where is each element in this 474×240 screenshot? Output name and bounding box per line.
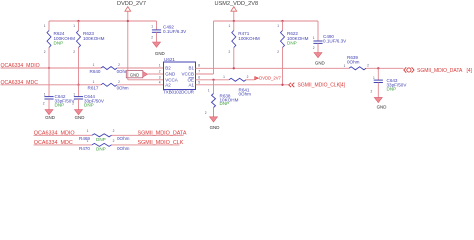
node MDC pullup junction [77,84,79,86]
wire QCA6334_MDC to R470 [34,144,93,146]
svg-text:DNP: DNP [287,41,297,46]
svg-text:USM2_VDD_2V8: USM2_VDD_2V8 [215,1,259,7]
wire U621 OE row [196,79,230,81]
svg-text:100KOHM: 100KOHM [83,36,105,41]
op-amp U621 level shifter body [164,62,196,90]
capacitor C642 [48,68,50,97]
svg-text:2: 2 [118,80,120,84]
svg-text:8: 8 [198,64,200,68]
svg-text:A1: A1 [188,83,194,88]
resistor R640 [101,67,117,70]
svg-text:R640: R640 [90,69,101,74]
node DVDD rail junction [127,20,129,22]
wire R469 to SGMII_MDIO_DATA [112,134,184,136]
wire R640 to U621 pin B2 [117,67,164,69]
off-page connector SGMII_MDIO_DATA [404,67,406,72]
resistor R622 [282,21,284,31]
svg-text:1: 1 [93,63,95,67]
ground for C643 [377,83,379,99]
resistor R639 [349,67,366,70]
node C643 junction [377,67,379,69]
resistor R617 [101,83,117,86]
node MDIO pullup junction [48,67,50,69]
svg-text:SGMII_MDIO_DATA: SGMII_MDIO_DATA [417,68,463,74]
svg-text:1: 1 [73,24,75,28]
svg-text:DNP: DNP [55,103,65,108]
node R622 junction on MDC clk line [281,84,283,86]
svg-text:DNP: DNP [96,137,106,142]
svg-text:DVDD_2V7: DVDD_2V7 [117,1,146,7]
svg-text:1: 1 [344,64,346,68]
svg-text:2: 2 [367,63,369,67]
capacitor C492 [156,21,158,30]
svg-text:0Ohm: 0Ohm [239,92,252,97]
capacitor C644 [78,85,80,97]
svg-text:[4]: [4] [467,68,473,74]
capacitor C490 [317,21,319,41]
svg-text:0Ohm: 0Ohm [117,146,130,151]
svg-text:1: 1 [313,36,315,40]
ground for C644 [78,99,80,111]
svg-text:DNP: DNP [54,41,64,46]
svg-text:6: 6 [198,75,200,79]
svg-text:GND: GND [377,105,387,110]
svg-text:[4]: [4] [340,83,346,89]
node USM2 rail junction at R471 [233,20,235,22]
svg-text:U621: U621 [164,57,175,62]
ground for C490 [317,43,319,53]
svg-text:1: 1 [223,75,225,79]
svg-text:2: 2 [371,89,373,93]
svg-text:DNP: DNP [387,87,397,92]
svg-text:DNP: DNP [220,101,230,106]
svg-text:2: 2 [151,35,153,39]
svg-text:GND: GND [75,115,85,120]
svg-text:B1: B1 [188,66,194,71]
svg-text:2: 2 [44,50,46,54]
svg-text:GND: GND [155,51,165,56]
svg-text:1: 1 [44,93,46,97]
svg-text:2: 2 [113,129,115,133]
svg-text:GND: GND [45,115,55,120]
wire VCCA to U621 [128,79,164,81]
wire QCA6334_MDIO to R640 [1,67,102,69]
svg-text:2: 2 [313,46,315,50]
node R623 rail junction [77,20,79,22]
svg-text:2: 2 [277,50,279,54]
svg-text:1: 1 [44,24,46,28]
svg-text:0.1UF/6.3V: 0.1UF/6.3V [163,29,187,34]
svg-text:TXB0102DCUR: TXB0102DCUR [163,90,195,95]
svg-text:VCCB: VCCB [181,72,194,77]
svg-text:1: 1 [93,80,95,84]
resistor R623 [78,21,80,31]
wire DVDD_2V7 rail [49,20,157,22]
svg-text:2: 2 [247,75,249,79]
resistor R471 [233,21,235,31]
svg-text:R617: R617 [88,86,99,91]
svg-text:5: 5 [198,81,200,85]
ground symbol at U621 GND pin [126,71,143,78]
wire R470 to SGMII_MDIO_CLK [112,144,180,146]
svg-text:0Ohm: 0Ohm [117,86,129,91]
power tap DVDD_2V7 at OE [255,77,259,80]
capacitor C643 [377,68,379,80]
svg-text:GND: GND [130,72,139,77]
svg-text:1: 1 [208,88,210,92]
svg-text:3: 3 [159,75,161,79]
svg-text:R470: R470 [79,146,90,151]
svg-text:2: 2 [118,63,120,67]
svg-text:GND: GND [210,125,220,130]
svg-text:1: 1 [373,76,375,80]
svg-text:7: 7 [198,70,200,74]
wire R641 to DVDD tap [246,79,255,81]
wire DVDD_2V7 down to VCCA [127,21,129,80]
svg-text:GND: GND [165,72,176,77]
svg-text:2: 2 [205,111,207,115]
ground for C642 [48,99,50,111]
svg-text:2: 2 [43,102,45,106]
svg-text:B2: B2 [165,66,171,71]
svg-text:DNP: DNP [84,103,94,108]
svg-text:1: 1 [159,64,161,68]
resistor R624 [48,21,50,31]
resistor R638 [213,80,215,94]
svg-text:0Ohm: 0Ohm [347,59,360,64]
svg-text:A2: A2 [165,83,171,88]
svg-text:1: 1 [87,129,89,133]
wire QCA6334_MDC to R617 [1,84,102,86]
svg-text:R469: R469 [79,136,90,141]
svg-text:2: 2 [113,139,115,143]
svg-text:2: 2 [159,70,161,74]
svg-text:DVDD_2V7: DVDD_2V7 [259,75,281,80]
wire U621 B1 to SGMII_MDIO_DATA [196,67,350,69]
off-page connector SGMII_MDIO_CLK [289,83,292,87]
node R622 rail junction [281,20,283,22]
wire R639 to off-page connector [366,67,404,69]
wire GND symbol to U621 pin GND [148,73,164,75]
svg-text:GND: GND [315,60,325,65]
ground for R638 [213,108,215,119]
node R471 junction on MDIO data line [233,67,235,69]
svg-text:SGMII_MDIO_CLK: SGMII_MDIO_CLK [298,83,341,89]
node R638 junction on OE [212,79,214,81]
svg-text:1: 1 [151,25,153,29]
resistor R641 [229,78,246,81]
svg-text:SGMII_MDIO_CLK: SGMII_MDIO_CLK [138,140,184,146]
svg-text:0.1UF/6.3V: 0.1UF/6.3V [323,39,347,44]
svg-text:2: 2 [73,50,75,54]
svg-text:0Ohm: 0Ohm [117,136,130,141]
wire R617 to U621 pin A2 [117,84,164,86]
svg-text:2: 2 [72,102,74,106]
svg-text:DNP: DNP [96,146,106,151]
wire QCA6334_MDIO to R469 [34,134,93,136]
wire U621 A1 to SGMII_MDIO_CLK [196,84,289,86]
svg-text:SGMII_MDIO_DATA: SGMII_MDIO_DATA [138,130,187,136]
resistor R470 [92,143,112,146]
svg-text:1: 1 [229,24,231,28]
svg-text:1: 1 [87,139,89,143]
ground for C492 [156,32,158,43]
wire U621 VCCB to rail [196,73,214,75]
svg-text:4: 4 [159,81,161,85]
svg-text:2: 2 [229,50,231,54]
wire VCCB pullup rail drop [213,21,215,74]
resistor R469 [92,134,112,137]
svg-text:1: 1 [73,93,75,97]
wire USM2_VDD_2V8 rail [214,20,319,22]
svg-text:100KOHM: 100KOHM [238,36,260,41]
svg-text:1: 1 [277,24,279,28]
